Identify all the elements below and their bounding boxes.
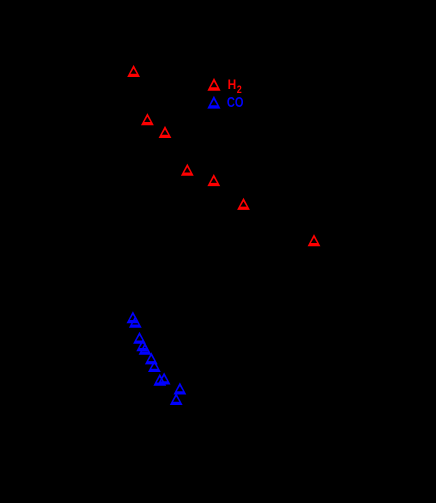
red data point R2: [141, 113, 154, 125]
blue data point B1: [126, 311, 139, 323]
legend marker CO (blue triangle): [207, 96, 220, 109]
blue data point B10: [174, 382, 187, 394]
blue data point B6: [145, 352, 158, 364]
svg-text:CO: CO: [227, 95, 244, 111]
red data point R5: [207, 174, 220, 186]
blue data point B9: [153, 374, 166, 386]
blue data point B4: [136, 339, 149, 351]
red data point R6: [237, 198, 250, 210]
svg-text:H: H: [228, 76, 237, 92]
blue data point B8: [158, 372, 171, 384]
blue data point B11: [170, 393, 183, 405]
red data point R7: [308, 234, 321, 246]
red data point R1: [127, 65, 140, 77]
blue data point B7: [148, 360, 161, 372]
red data point R4: [181, 164, 194, 176]
blue data point B5: [139, 343, 152, 355]
red data point R3: [159, 126, 172, 138]
blue data point B3: [133, 332, 146, 344]
blue data point B2: [129, 316, 142, 328]
legend marker H2 (red triangle): [207, 78, 220, 91]
